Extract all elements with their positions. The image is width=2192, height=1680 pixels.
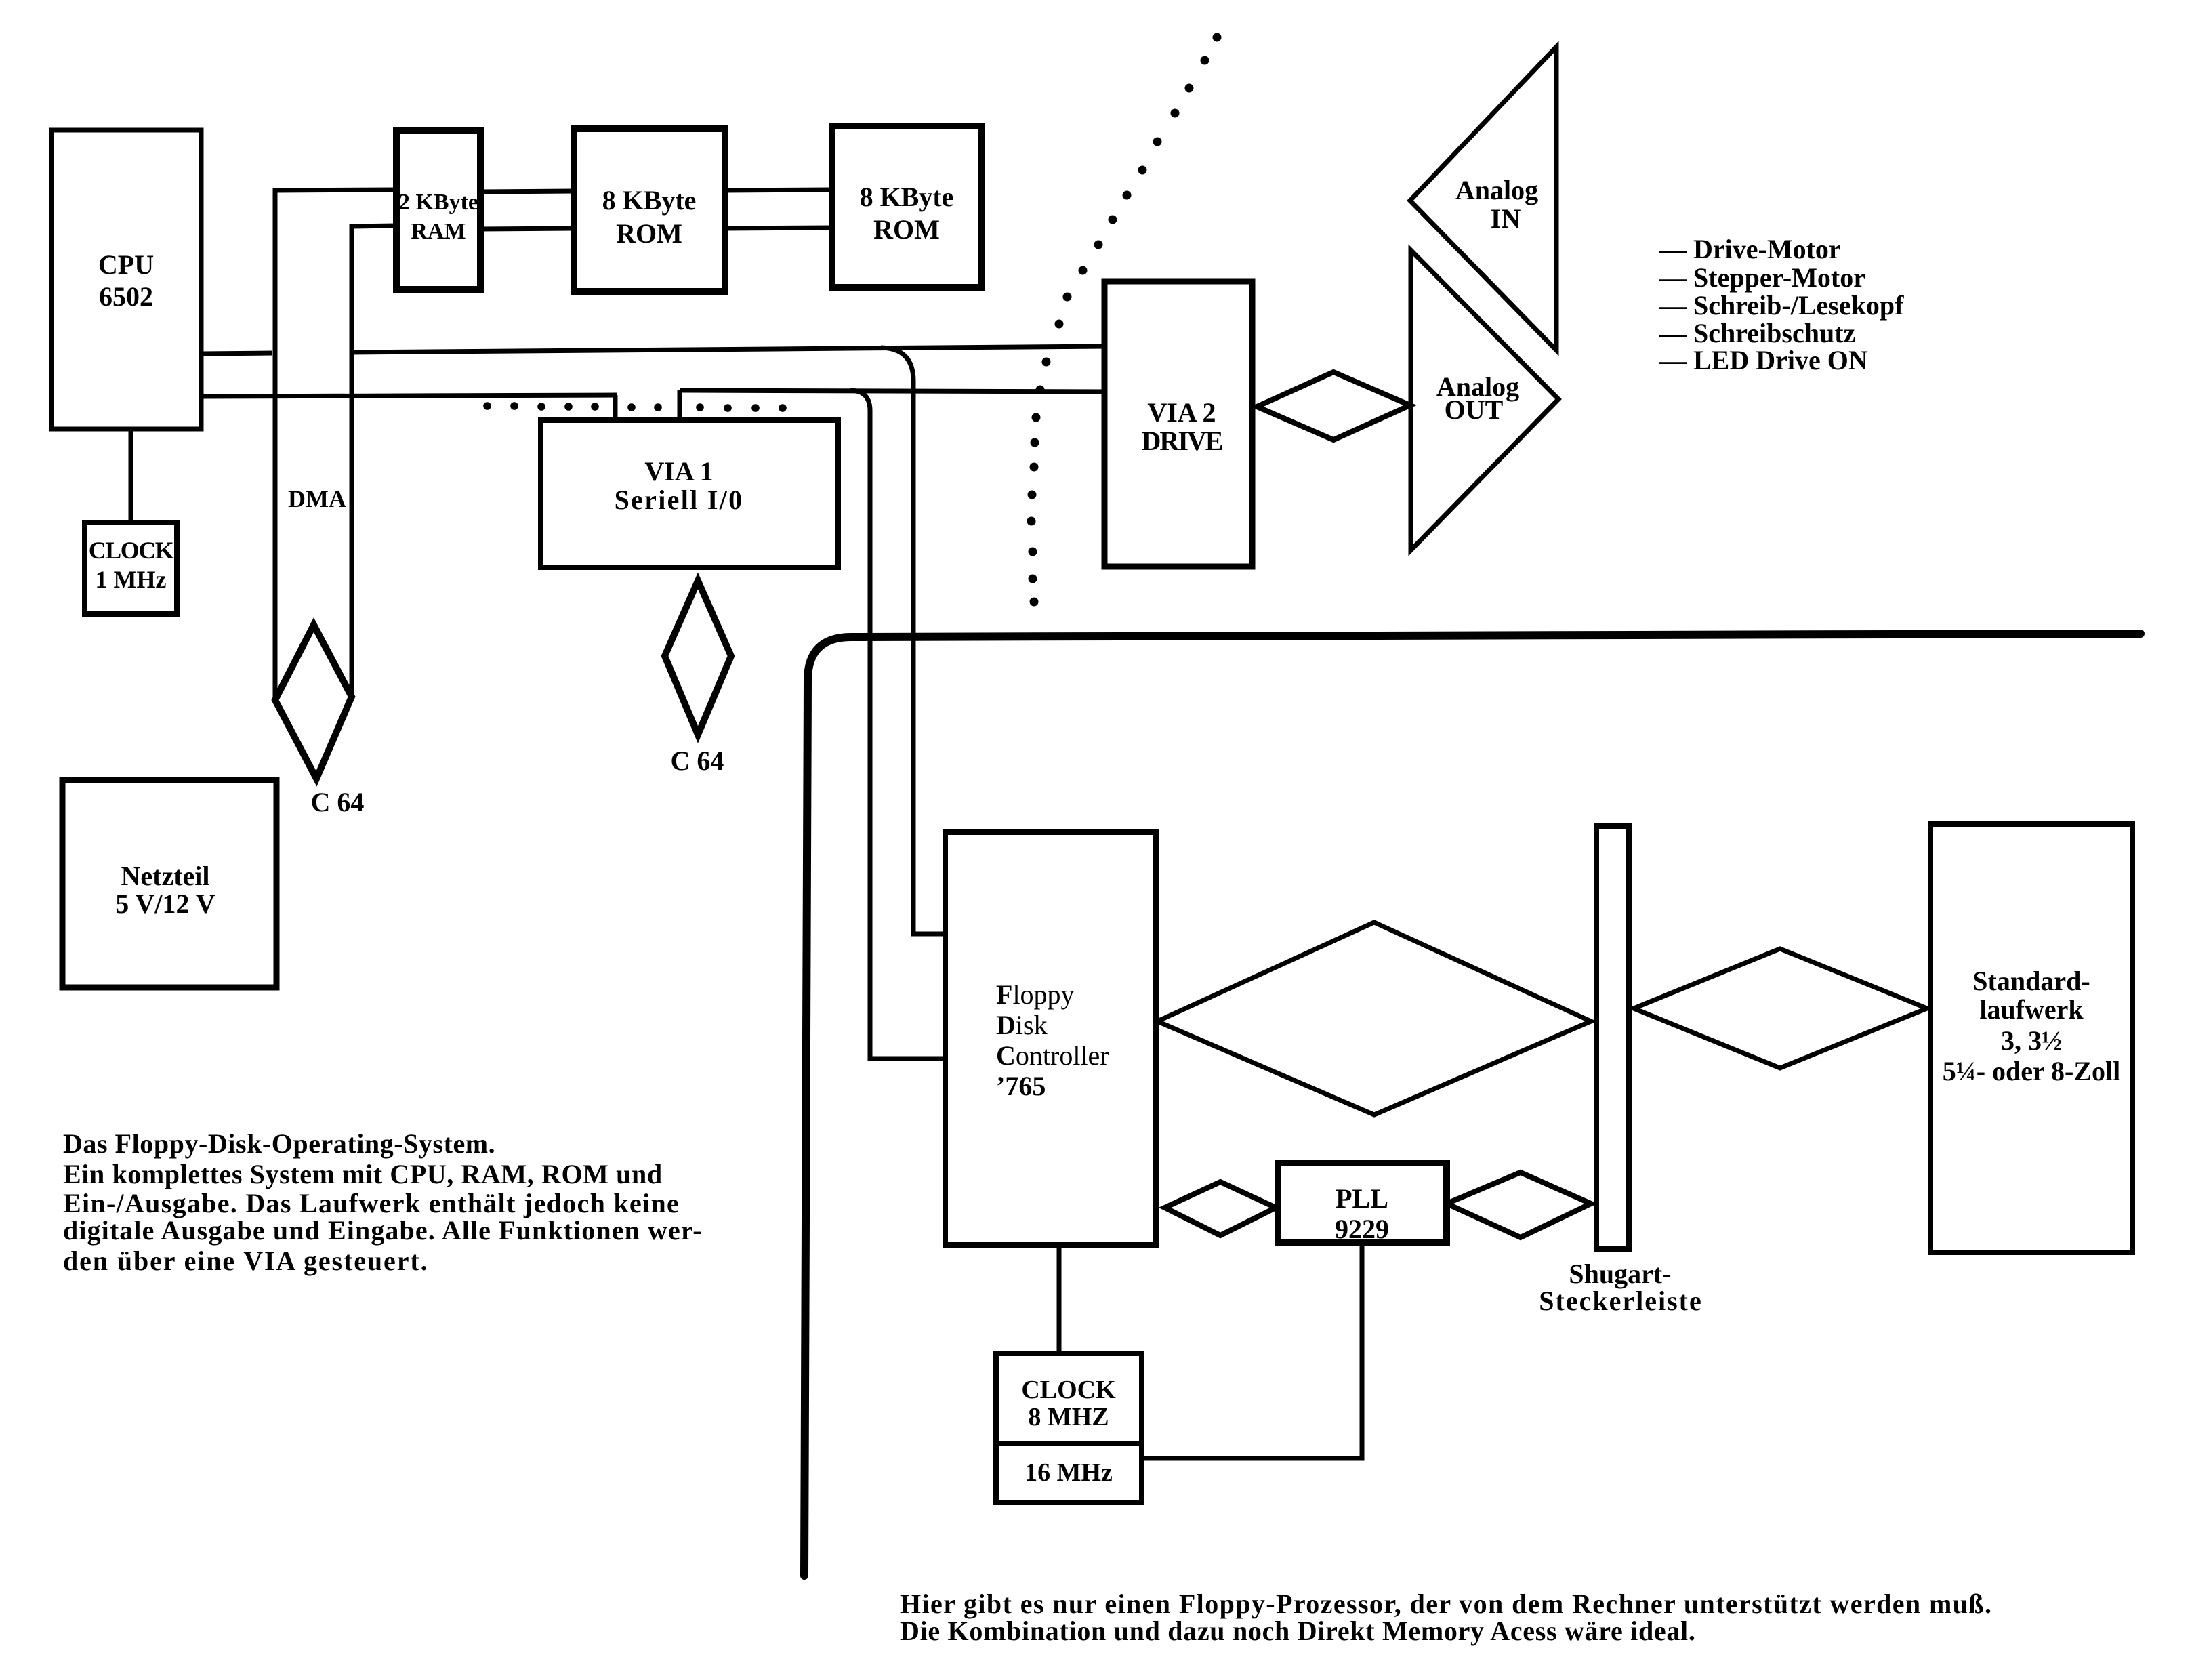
svg-text:Die Kombination und dazu noch: Die Kombination und dazu noch Direkt Mem… [900, 1616, 1696, 1646]
svg-text:Das Floppy-Disk-Operating-Syst: Das Floppy-Disk-Operating-System. [63, 1128, 495, 1159]
svg-text:VIA 1: VIA 1 [644, 456, 713, 487]
svg-text:ROM: ROM [873, 214, 940, 245]
svg-text:5 V/12 V: 5 V/12 V [115, 888, 215, 919]
svg-text:digitale Ausgabe und Eingabe.: digitale Ausgabe und Eingabe. Alle Funkt… [63, 1215, 703, 1246]
svg-text:Seriell I/0: Seriell I/0 [615, 485, 744, 515]
svg-text:Hier gibt es nur einen Floppy-: Hier gibt es nur einen Floppy-Prozessor,… [900, 1589, 1992, 1619]
svg-text:VIA 2: VIA 2 [1147, 397, 1216, 428]
svg-text:1 MHz: 1 MHz [96, 566, 167, 593]
svg-text:DMA: DMA [288, 485, 346, 512]
svg-text:Disk: Disk [996, 1010, 1048, 1040]
svg-text:ROM: ROM [616, 218, 682, 249]
svg-text:PLL: PLL [1336, 1183, 1388, 1214]
svg-text:6502: 6502 [99, 281, 153, 312]
svg-text:5¼- oder 8-Zoll: 5¼- oder 8-Zoll [1943, 1056, 2121, 1086]
svg-text:— Schreibschutz: — Schreibschutz [1659, 318, 1855, 348]
svg-text:OUT: OUT [1445, 394, 1504, 425]
svg-text:16 MHz: 16 MHz [1025, 1458, 1113, 1487]
svg-text:C 64: C 64 [671, 745, 724, 776]
svg-text:Steckerleiste: Steckerleiste [1539, 1286, 1702, 1316]
svg-text:Shugart-: Shugart- [1569, 1258, 1671, 1289]
svg-text:— LED Drive ON: — LED Drive ON [1659, 345, 1868, 375]
svg-text:’765: ’765 [996, 1071, 1046, 1101]
svg-text:Ein-/Ausgabe. Das Laufwerk ent: Ein-/Ausgabe. Das Laufwerk enthält jedoc… [63, 1188, 680, 1218]
svg-text:8 KByte: 8 KByte [602, 185, 697, 216]
svg-text:8 KByte: 8 KByte [860, 182, 954, 212]
svg-text:RAM: RAM [411, 219, 466, 244]
svg-text:Netzteil: Netzteil [121, 861, 209, 891]
svg-text:Controller: Controller [996, 1040, 1109, 1071]
svg-text:— Stepper-Motor: — Stepper-Motor [1659, 262, 1865, 293]
svg-text:C 64: C 64 [311, 787, 365, 817]
svg-text:CLOCK: CLOCK [89, 537, 174, 564]
svg-text:IN: IN [1491, 203, 1521, 234]
svg-text:Analog: Analog [1455, 175, 1538, 205]
svg-text:8 MHZ: 8 MHZ [1028, 1403, 1109, 1431]
svg-text:— Schreib-/Lesekopf: — Schreib-/Lesekopf [1659, 290, 1904, 321]
svg-text:Floppy: Floppy [996, 979, 1075, 1010]
svg-text:laufwerk: laufwerk [1979, 994, 2084, 1025]
svg-text:DRIVE: DRIVE [1142, 426, 1222, 456]
svg-text:3, 3½: 3, 3½ [2001, 1025, 2062, 1056]
svg-text:CPU: CPU [98, 249, 154, 280]
svg-text:9229: 9229 [1335, 1214, 1389, 1244]
svg-text:Ein komplettes System mit CPU,: Ein komplettes System mit CPU, RAM, ROM … [63, 1159, 663, 1189]
svg-text:Standard-: Standard- [1972, 966, 2090, 996]
svg-text:den über eine VIA gesteuert.: den über eine VIA gesteuert. [63, 1246, 428, 1276]
svg-text:— Drive-Motor: — Drive-Motor [1659, 234, 1841, 264]
svg-text:2 KByte: 2 KByte [398, 190, 478, 215]
svg-text:CLOCK: CLOCK [1021, 1376, 1116, 1404]
